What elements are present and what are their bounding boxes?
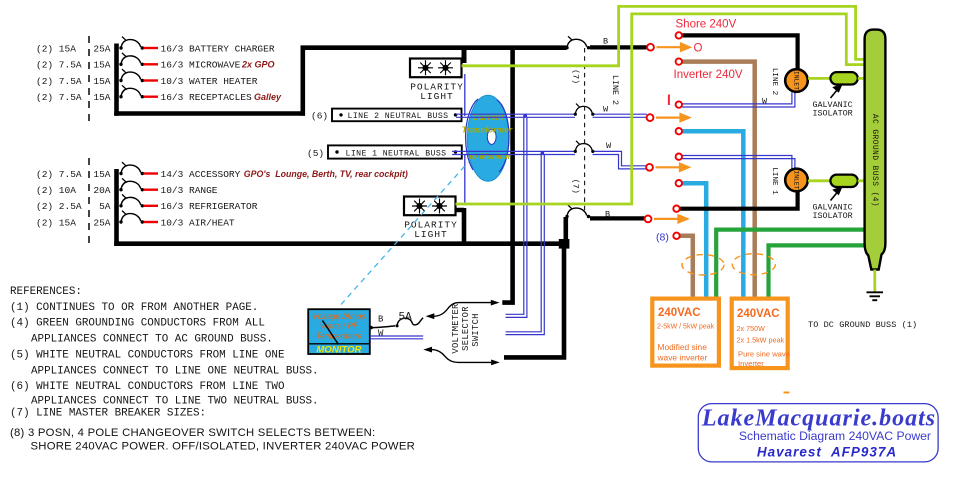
changeover switch pole 3 common node xyxy=(646,164,653,171)
ground symbol xyxy=(867,292,884,300)
svg-text:O: O xyxy=(694,43,703,55)
svg-text:(7): (7) xyxy=(571,179,581,194)
svg-text:(2) 15A: (2) 15A xyxy=(36,43,76,54)
polarity light unit 2 xyxy=(404,197,458,240)
wire red microwave xyxy=(144,63,159,65)
wire blue polarity light 1 to line 2 neutral xyxy=(464,74,466,116)
AC ground buss bar xyxy=(865,30,886,270)
svg-text:LIGHT: LIGHT xyxy=(414,229,448,240)
line 2 neutral buss xyxy=(332,109,462,122)
breaker CB2 15A microwave xyxy=(36,53,144,71)
main black bus vertical xyxy=(502,48,515,303)
svg-text:15A: 15A xyxy=(93,60,110,71)
wire red battery charger xyxy=(144,47,159,49)
svg-text:APPLIANCES CONNECT TO LINE TWO: APPLIANCES CONNECT TO LINE TWO NEUTRAL B… xyxy=(31,395,319,407)
svg-text:(2) 7.5A: (2) 7.5A xyxy=(36,76,82,87)
svg-text:Transformer: Transformer xyxy=(462,125,513,135)
wire cyan inverter W line2 xyxy=(682,131,744,296)
voltmeter selector switch wire lower xyxy=(423,347,500,366)
svg-text:Voltage /Amps: Voltage /Amps xyxy=(313,312,366,321)
wire black to polarity light 1 xyxy=(462,48,467,63)
pole 2 shore node xyxy=(676,101,682,107)
shore inlet line 2 xyxy=(785,69,808,92)
wire black B line1 riser xyxy=(563,217,568,245)
switch position red tick xyxy=(668,95,670,106)
breaker CB7 5A refrigerator xyxy=(36,194,144,212)
wire black shore line1 to inlet xyxy=(680,191,798,209)
svg-text:16/3 REFRIGERATOR: 16/3 REFRIGERATOR xyxy=(161,201,258,212)
pole 1 inverter node xyxy=(676,58,682,64)
wire cyan inverter W line1 xyxy=(682,183,707,296)
svg-text:GPO's Lounge, Berth, TV, rear: GPO's Lounge, Berth, TV, rear cockpit) xyxy=(244,169,408,179)
group 1 bus top wire to changeover switch xyxy=(301,45,567,50)
pole 2 inverter node xyxy=(676,128,682,134)
pole 3 inverter node xyxy=(676,180,682,186)
small orange mark xyxy=(784,392,790,394)
svg-text:(8) 3 POSN, 4 POLE CHANGEOVER: (8) 3 POSN, 4 POLE CHANGEOVER SWITCH SEL… xyxy=(10,427,375,439)
svg-text:TO DC GROUND BUSS (1): TO DC GROUND BUSS (1) xyxy=(808,320,917,330)
svg-text:(2) 7.5A: (2) 7.5A xyxy=(36,169,82,180)
wire lime inlet 2 to galvanic isolator 1 xyxy=(808,77,830,80)
svg-text:(5) WHITE NEUTRAL CONDUCTORS F: (5) WHITE NEUTRAL CONDUCTORS FROM LINE O… xyxy=(10,349,285,361)
wire black polarity light 2 to bus xyxy=(456,208,465,243)
wire lime polarity light 2 to ground buss xyxy=(456,14,865,204)
wire W line1 neutral pair xyxy=(452,151,646,169)
svg-text:ISOLATOR: ISOLATOR xyxy=(812,109,852,119)
pole group ellipse 1 xyxy=(682,255,724,275)
svg-text:SELECTOR: SELECTOR xyxy=(461,306,471,351)
svg-text:Modified sine: Modified sine xyxy=(658,342,708,352)
svg-text:AC GROUND BUSS (4): AC GROUND BUSS (4) xyxy=(870,114,878,207)
svg-text:(2) 2.5A: (2) 2.5A xyxy=(36,201,82,212)
group 2 bus bottom wire xyxy=(114,241,566,246)
svg-text:15A: 15A xyxy=(93,92,110,103)
svg-text:ISOLATOR: ISOLATOR xyxy=(812,211,852,221)
breaker B line1 master xyxy=(565,205,590,218)
wire lime inlet 1 to galvanic isolator 2 xyxy=(808,179,830,182)
reference note 8 xyxy=(10,427,415,452)
svg-text:B: B xyxy=(603,37,608,47)
svg-text:Shore 240V: Shore 240V xyxy=(676,19,737,31)
wire lime buss to ground xyxy=(873,270,876,292)
current transformer CT1 xyxy=(466,95,509,181)
wire green inverter 2 ground to buss xyxy=(769,245,865,296)
svg-text:W: W xyxy=(606,141,612,151)
references notes xyxy=(10,286,319,420)
svg-text:Temperature: Temperature xyxy=(316,331,363,340)
svg-text:(2) 7.5A: (2) 7.5A xyxy=(36,92,82,103)
galvanic isolator 1 xyxy=(830,72,857,84)
breaker CB5 15A accessory xyxy=(36,162,144,180)
svg-text:2x GPO: 2x GPO xyxy=(241,60,275,70)
logo title block xyxy=(698,404,938,462)
galvanic isolator 2 pointer arrow xyxy=(831,187,842,200)
breaker W line1 xyxy=(574,141,595,153)
group 2 breaker panel dashed separator xyxy=(88,158,90,248)
svg-text:15A: 15A xyxy=(93,76,110,87)
svg-text:(1) CONTINUES TO OR FROM ANOTH: (1) CONTINUES TO OR FROM ANOTHER PAGE. xyxy=(10,302,258,314)
svg-text:LINE 2: LINE 2 xyxy=(770,68,778,96)
svg-text:5A: 5A xyxy=(99,201,111,212)
svg-text:240VAC: 240VAC xyxy=(658,307,701,319)
group 2 bus vertical xyxy=(114,169,119,246)
wire brown inverter line1 B xyxy=(680,236,693,297)
svg-text:Galley: Galley xyxy=(254,92,282,102)
wire blue polarity light 2 to line 1 neutral xyxy=(464,154,466,203)
line 1 neutral buss xyxy=(328,145,462,158)
svg-text:REFERENCES:: REFERENCES: xyxy=(10,286,82,298)
svg-text:INLET: INLET xyxy=(793,71,800,90)
svg-text:Pure sine wave: Pure sine wave xyxy=(738,350,790,359)
svg-text:16/3 RECEPTACLES: 16/3 RECEPTACLES xyxy=(161,92,253,103)
node junction on W line2 xyxy=(524,114,528,118)
svg-text:(6) WHITE NEUTRAL CONDUCTORS F: (6) WHITE NEUTRAL CONDUCTORS FROM LINE T… xyxy=(10,381,285,393)
polarity light unit 1 xyxy=(410,59,464,102)
svg-text:W: W xyxy=(378,329,384,339)
breaker CB3 15A water heater xyxy=(36,69,144,87)
wire red accessory xyxy=(144,172,159,174)
wire red range xyxy=(144,188,159,190)
changeover switch pole 4 common node xyxy=(645,216,652,223)
pole group ellipse 2 xyxy=(732,254,775,275)
wire brown inverter line2 B xyxy=(682,62,755,297)
wire black B line1 to switch xyxy=(590,216,645,220)
pole 3 shore node xyxy=(676,154,682,160)
wire green inverter 1 ground to buss xyxy=(716,230,864,297)
wire red receptacles xyxy=(144,95,159,97)
svg-text:B: B xyxy=(605,210,610,220)
svg-text:(5): (5) xyxy=(307,148,324,159)
svg-text:25A: 25A xyxy=(93,217,110,228)
svg-text:W: W xyxy=(603,105,609,115)
svg-text:2-5kW / 5kW peak: 2-5kW / 5kW peak xyxy=(657,324,715,331)
wire red refrigerator xyxy=(144,205,159,207)
svg-text:B: B xyxy=(378,315,384,325)
pole 2 blade arrow xyxy=(656,114,689,121)
svg-text:LINE 2 NEUTRAL BUSS: LINE 2 NEUTRAL BUSS xyxy=(348,112,449,121)
wire W line2 drop to voltmeter switch xyxy=(506,115,527,317)
svg-text:25A: 25A xyxy=(93,43,110,54)
wire W line1 drop to voltmeter switch xyxy=(506,153,545,335)
svg-text:(8): (8) xyxy=(656,232,669,244)
svg-text:MONITOR: MONITOR xyxy=(316,345,361,356)
wire red air/heat xyxy=(144,221,159,223)
node junction on W line1 xyxy=(541,151,545,155)
monitor unit xyxy=(308,309,370,355)
wire lime galvanic isolator 1 to buss xyxy=(858,77,865,80)
svg-text:INLET: INLET xyxy=(793,170,800,189)
changeover switch pole 2 common node xyxy=(647,114,654,121)
wire black monitor B lead xyxy=(371,326,395,328)
svg-text:W: W xyxy=(762,97,768,107)
svg-text:10/3 WATER HEATER: 10/3 WATER HEATER xyxy=(161,76,258,87)
group 1 bus bottom wire xyxy=(114,111,305,116)
inverter unit 1 modified sine xyxy=(652,299,719,366)
svg-text:2x 750W: 2x 750W xyxy=(737,324,766,333)
svg-text:15A: 15A xyxy=(93,169,110,180)
svg-text:2x 1.5kW peak: 2x 1.5kW peak xyxy=(737,336,785,345)
wire red water heater xyxy=(144,79,159,81)
wire black shore line2 to inlet xyxy=(682,35,798,69)
group 1 DC bus vertical xyxy=(114,44,119,116)
svg-text:Havarest AFP937A: Havarest AFP937A xyxy=(757,444,897,459)
group 1 breaker panel dashed separator xyxy=(88,36,90,126)
changeover switch pole 1 common node xyxy=(647,44,654,51)
svg-text:VOLTMETER: VOLTMETER xyxy=(451,303,461,354)
svg-text:(2) 7.5A: (2) 7.5A xyxy=(36,60,82,71)
svg-text:(2) 15A: (2) 15A xyxy=(36,217,76,228)
svg-text:Inverter 240V: Inverter 240V xyxy=(674,69,743,81)
breaker CB4 15A receptacles xyxy=(36,85,144,103)
wire black thick selector to bus junction xyxy=(504,244,564,358)
svg-text:(4) GREEN GROUNDING CONDUCTORS: (4) GREEN GROUNDING CONDUCTORS FROM ALL xyxy=(10,318,265,330)
pole 3 blade arrow xyxy=(656,164,689,171)
breaker CB6 20A range xyxy=(36,178,144,196)
svg-text:LINE 1: LINE 1 xyxy=(770,167,778,195)
node junction group2 bus xyxy=(559,239,570,249)
svg-text:10/3 AIR/HEAT: 10/3 AIR/HEAT xyxy=(161,217,235,228)
svg-text:Inverter: Inverter xyxy=(738,359,764,368)
inverter unit 2 pure sine xyxy=(732,299,790,369)
svg-text:APPLIANCES CONNECT TO LINE ONE: APPLIANCES CONNECT TO LINE ONE NEUTRAL B… xyxy=(31,365,319,377)
svg-text:20A: 20A xyxy=(93,185,110,196)
svg-text:16/3 BATTERY CHARGER: 16/3 BATTERY CHARGER xyxy=(161,43,275,54)
svg-text:(2) 10A: (2) 10A xyxy=(36,185,76,196)
breaker CB8 25A air/heat xyxy=(36,211,144,229)
pole 4 inverter node xyxy=(673,233,679,239)
galvanic isolator 1 pointer arrow xyxy=(831,85,842,98)
shore inlet line 1 xyxy=(785,169,808,192)
svg-text:(7) LINE MASTER BREAKER SIZES:: (7) LINE MASTER BREAKER SIZES: xyxy=(10,408,206,420)
svg-text:16/3 MICROWAVE: 16/3 MICROWAVE xyxy=(161,60,241,71)
svg-text:(6): (6) xyxy=(311,111,328,122)
wire lime galvanic isolator 2 to buss xyxy=(858,179,865,182)
pole 4 shore node xyxy=(673,206,679,212)
svg-text:(7): (7) xyxy=(571,69,581,84)
wire blue shore W line2 to inlet xyxy=(682,92,795,107)
svg-text:14/3 ACCESSORY: 14/3 ACCESSORY xyxy=(161,169,241,180)
svg-text:wave inverter: wave inverter xyxy=(657,353,708,363)
svg-text:LakeMacquarie.boats: LakeMacquarie.boats xyxy=(701,406,936,432)
svg-text:LINE 1 NEUTRAL BUSS: LINE 1 NEUTRAL BUSS xyxy=(346,149,447,158)
pole 1 shore node xyxy=(676,32,682,38)
breaker gang dashed tie xyxy=(584,48,586,213)
svg-text:to Monitor: to Monitor xyxy=(469,151,512,161)
breaker 5A voltmeter xyxy=(395,318,423,328)
svg-text:SWITCH: SWITCH xyxy=(471,313,481,346)
breaker W line2 xyxy=(574,104,595,116)
pole 4 blade arrow xyxy=(654,215,687,222)
svg-text:Schematic Diagram 240VAC Power: Schematic Diagram 240VAC Power xyxy=(739,429,931,443)
wire blue shore W line1 to inlet xyxy=(682,156,795,169)
svg-text:SHORE 240VAC POWER. OFF/ISOLAT: SHORE 240VAC POWER. OFF/ISOLATED, INVERT… xyxy=(31,440,416,452)
svg-text:5A: 5A xyxy=(399,312,413,324)
wire lime polarity light 1 to ground buss xyxy=(462,6,865,65)
wire black B line2 to switch xyxy=(590,45,647,49)
svg-text:10/3 RANGE: 10/3 RANGE xyxy=(161,185,218,196)
galvanic isolator 2 xyxy=(830,175,857,187)
svg-text:240VAC: 240VAC xyxy=(737,308,780,320)
group 1 bus riser wire xyxy=(300,48,305,116)
breaker CB1 25A battery charger xyxy=(36,37,144,55)
breaker B line2 master xyxy=(565,36,590,49)
svg-text:LIGHT: LIGHT xyxy=(420,91,454,102)
voltmeter selector switch wire upper xyxy=(426,300,500,319)
svg-text:LINE 2: LINE 2 xyxy=(610,75,620,105)
svg-text:APPLIANCES CONNECT TO AC GROUN: APPLIANCES CONNECT TO AC GROUND BUSS. xyxy=(31,333,273,345)
wire W line2 neutral pair xyxy=(456,114,647,117)
wire dashed cyan monitor to CT xyxy=(341,163,468,305)
pole 1 blade arrow xyxy=(657,44,690,51)
wire W monitor neutral pair xyxy=(370,336,423,339)
